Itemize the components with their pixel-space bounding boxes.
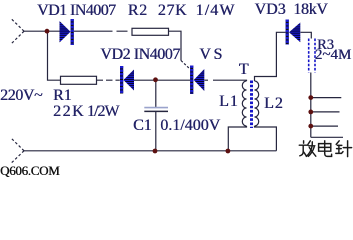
label R2 27K [128, 3, 187, 19]
capacitor C1 top plate (light) [144, 107, 168, 109]
label 220V~ [0, 88, 42, 104]
label VS [199, 47, 224, 63]
label VD3 [255, 2, 286, 18]
wire VD3 to R3 [301, 32, 312, 38]
wire top rail left [24, 30, 60, 32]
label L2 [264, 96, 284, 112]
label 放电针 (discharge needles) drawn strokes [299, 141, 351, 157]
diode VD2 cathode bar [120, 66, 123, 94]
diode VD3 triangle [289, 23, 300, 43]
node junction top-left [45, 29, 50, 34]
terminal input top-left [11, 19, 24, 45]
label 2~4M [315, 48, 351, 63]
wire L1 bottom lead [228, 126, 246, 151]
label VD2 IN4007 [100, 47, 180, 63]
wire needle prong 2 [311, 111, 340, 113]
wire bottom rail [24, 150, 276, 152]
label R1 [53, 88, 72, 104]
wire needle prong 4 (corner) [311, 136, 343, 138]
label Q606.COM watermark [0, 164, 59, 177]
wire R3 bottom to needle column [310, 73, 312, 138]
label 18kV [293, 2, 327, 18]
wire R1 to VD2 [97, 79, 120, 81]
resistor R2 [132, 28, 169, 35]
transformer secondary L2 coil [255, 81, 259, 126]
diode VD2 triangle [123, 70, 134, 91]
label 1/4W [196, 3, 236, 19]
node junction bottom L1 [226, 149, 231, 154]
label VD1 IN4007 [37, 3, 116, 19]
wire C1 top lead [155, 80, 157, 107]
wire L2 top lead [255, 32, 286, 81]
node junction bottom C1 [153, 149, 158, 154]
node junction middle [153, 77, 158, 82]
node junction needle 1 [308, 95, 313, 100]
transformer T primary L1 coil [242, 81, 246, 126]
label L1 [219, 94, 239, 110]
diode VD1 triangle [60, 21, 71, 43]
wire needle prong 3 [311, 125, 338, 127]
diode VD3 cathode bar [286, 20, 289, 45]
resistor R1 [61, 76, 97, 84]
wire VD1 to R2 [74, 30, 128, 32]
thyristor VS triangle [194, 69, 205, 91]
thyristor VS cathode bar [190, 66, 193, 95]
wire R2 to corner [169, 31, 182, 60]
wire VS to transformer [205, 79, 247, 82]
label 22K [53, 104, 85, 120]
label 0.1/400V [160, 118, 220, 134]
wire gate diagonal to VS [181, 61, 190, 70]
wire C1 bottom lead [155, 112, 157, 151]
diode VD1 cathode bar [71, 19, 74, 45]
resistor R3 dashed body left side [308, 39, 310, 73]
wire VD2 to VS [134, 79, 190, 81]
label T [239, 62, 249, 78]
transformer core [250, 81, 253, 129]
node junction needle 3 [308, 124, 313, 129]
wire left vertical junction to R1 [48, 31, 61, 80]
label C1 [133, 118, 152, 134]
terminal input bottom-left [11, 138, 24, 163]
wire needle prong 1 [311, 97, 342, 99]
capacitor C1 bottom plate [144, 110, 168, 112]
wire L2 bottom lead [255, 126, 277, 151]
resistor R3 dashed body right side [314, 39, 316, 73]
label 1/2W [87, 104, 119, 120]
node junction needle 2 [308, 110, 313, 115]
label R3 [317, 38, 334, 53]
